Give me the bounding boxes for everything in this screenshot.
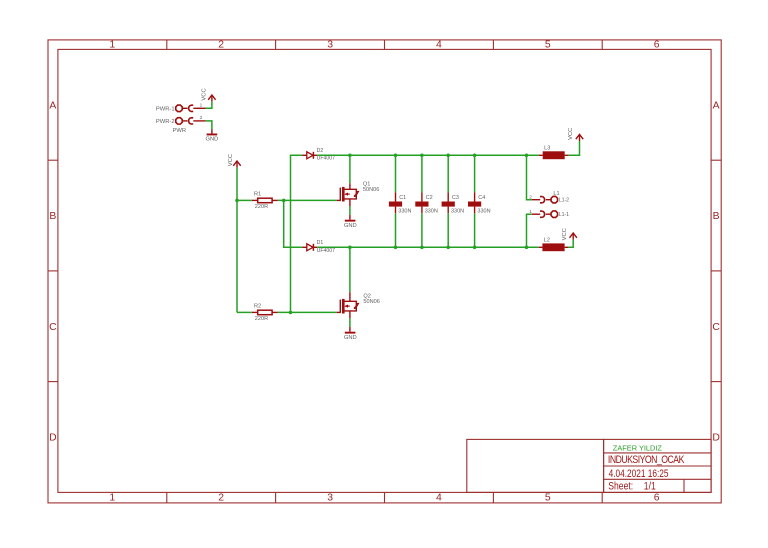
svg-text:GND: GND — [205, 136, 218, 142]
capacitor C1 — [389, 202, 402, 207]
svg-text:2: 2 — [218, 40, 224, 51]
resistor R2 — [258, 310, 272, 315]
svg-text:ZAFER YILDIZ: ZAFER YILDIZ — [613, 443, 663, 452]
connector PWR pin 2 pad — [176, 118, 193, 124]
ground stub Q1 — [349, 215, 351, 220]
svg-text:GND: GND — [344, 335, 357, 341]
C1 top pin — [395, 192, 397, 201]
L2 left pin — [539, 246, 543, 248]
svg-text:4: 4 — [436, 492, 442, 503]
resistor R1 — [258, 198, 272, 203]
R2 left pin — [252, 311, 258, 313]
wire L1 pin 1 down to bottom bus — [527, 214, 532, 247]
R1 right pin — [272, 199, 278, 201]
wire Q1 source to ground — [349, 206, 351, 215]
wire rail to R1 — [237, 199, 252, 201]
junction bottom bus x=474.6 — [473, 246, 477, 250]
R1 left pin — [252, 199, 258, 201]
svg-text:R2: R2 — [254, 304, 261, 310]
junction bottom bus x=421.9 — [420, 246, 424, 250]
svg-text:UF4007: UF4007 — [317, 156, 336, 162]
svg-text:6: 6 — [654, 40, 660, 51]
junction R2 out / D2 branch — [289, 311, 293, 315]
wire R1 to Q1 gate — [278, 199, 337, 201]
svg-text:330N: 330N — [398, 208, 411, 214]
junction bottom bus x=349.9 — [348, 246, 352, 250]
svg-text:D: D — [712, 433, 720, 444]
svg-text:50N06: 50N06 — [363, 187, 379, 193]
connector PWR pin 1 pad — [176, 105, 193, 111]
transistor Q2 — [340, 299, 358, 314]
svg-text:B: B — [713, 211, 720, 222]
junction bottom bus x=395.5 — [394, 246, 398, 250]
C1 bottom pin — [395, 207, 397, 214]
svg-text:Sheet:: Sheet: — [608, 481, 633, 493]
supply VCC (gate rail) — [233, 161, 240, 168]
svg-text:VCC: VCC — [228, 154, 234, 166]
C2 top pin — [421, 192, 423, 201]
svg-text:6: 6 — [654, 492, 660, 503]
wire L2 to VCC — [568, 240, 573, 248]
wire top bus down to L1 pin 2 — [527, 155, 532, 199]
svg-text:3: 3 — [327, 40, 333, 51]
svg-text:5: 5 — [545, 40, 551, 51]
junction top bus x=526.5 — [525, 154, 529, 158]
svg-text:R1: R1 — [254, 192, 261, 198]
L1 pin 1 wire — [532, 213, 540, 215]
svg-text:L1-2: L1-2 — [559, 198, 569, 204]
svg-text:PWR: PWR — [173, 128, 187, 134]
L3 left pin — [539, 154, 543, 156]
inductor L2 — [542, 243, 564, 251]
wire stub to ground bar — [211, 129, 213, 133]
svg-text:1: 1 — [200, 102, 203, 108]
ground GND (Q1) — [345, 220, 356, 222]
wire top bus to Q1 drain — [349, 155, 351, 183]
pin wire PWR-1 — [193, 107, 205, 109]
capacitor C2 — [415, 202, 428, 207]
svg-text:1: 1 — [109, 40, 115, 51]
supply VCC (L2) — [570, 233, 577, 240]
svg-text:A: A — [49, 101, 56, 112]
junction top bus x=421.9 — [420, 154, 424, 158]
R2 right pin — [272, 311, 278, 313]
junction top bus x=349.9 — [348, 154, 352, 158]
wire gate2 node up to D2 anode — [291, 155, 303, 312]
svg-text:C1: C1 — [399, 195, 406, 201]
transistor Q1 — [340, 187, 358, 202]
L2 right pin — [565, 246, 569, 248]
svg-text:D1: D1 — [317, 240, 324, 246]
wire top bus to C3 — [447, 155, 449, 192]
Q2 source pin — [349, 311, 351, 319]
svg-text:C3: C3 — [452, 195, 459, 201]
L1 pin 2 wire — [532, 199, 540, 201]
C2 bottom pin — [421, 207, 423, 214]
wire C3 to bottom bus — [447, 213, 449, 247]
wire top bus (D2 cathode to L3) — [317, 154, 539, 156]
diode D2 — [302, 152, 317, 159]
ground stub Q2 — [349, 327, 351, 332]
C4 top pin — [474, 192, 476, 201]
inductor L3 — [543, 151, 565, 159]
C3 top pin — [447, 192, 449, 201]
junction top bus x=448.2 — [446, 154, 450, 158]
wire top bus to C2 — [421, 155, 423, 192]
svg-text:D2: D2 — [317, 148, 324, 154]
svg-text:220R: 220R — [255, 204, 268, 210]
wire bottom bus (D1 cathode to L2) — [317, 246, 539, 248]
junction bottom bus x=448.2 — [446, 246, 450, 250]
wire PWR-1 to VCC — [206, 102, 212, 109]
L3 right pin — [565, 154, 569, 156]
svg-text:C2: C2 — [426, 195, 433, 201]
Q2 drain pin — [349, 292, 351, 301]
connector L1 pin 2 pad — [540, 196, 558, 202]
svg-text:C4: C4 — [478, 195, 485, 201]
wire Q2 source to ground — [349, 318, 351, 327]
wire C4 to bottom bus — [474, 213, 476, 247]
Q2 gate pin — [337, 311, 341, 313]
svg-text:C: C — [712, 322, 720, 333]
junction top bus x=474.6 — [473, 154, 477, 158]
pin wire PWR-2 — [193, 120, 205, 122]
svg-text:330N: 330N — [451, 208, 464, 214]
svg-text:3: 3 — [327, 492, 333, 503]
svg-text:L1: L1 — [553, 191, 559, 197]
junction top bus x=395.5 — [394, 154, 398, 158]
wire R2 to Q2 gate — [278, 311, 337, 313]
svg-text:PWR-1: PWR-1 — [156, 107, 175, 113]
svg-text:L3: L3 — [544, 145, 550, 151]
svg-text:VCC: VCC — [201, 88, 207, 100]
svg-text:1/1: 1/1 — [644, 481, 656, 493]
svg-text:C: C — [49, 322, 57, 333]
svg-text:L1-1: L1-1 — [559, 212, 569, 218]
wire rail corner to R2 — [237, 311, 252, 313]
svg-text:PWR-2: PWR-2 — [156, 119, 175, 125]
junction rail/R1 — [235, 199, 239, 203]
svg-text:1: 1 — [109, 492, 115, 503]
connector L1 pin 1 pad — [540, 211, 558, 217]
svg-text:220R: 220R — [255, 316, 268, 322]
svg-text:330N: 330N — [477, 208, 490, 214]
C3 bottom pin — [447, 207, 449, 214]
Q1 drain pin — [349, 183, 351, 189]
svg-text:4: 4 — [436, 40, 442, 51]
svg-text:330N: 330N — [425, 208, 438, 214]
ground GND (Q2) — [345, 332, 356, 334]
C4 bottom pin — [474, 207, 476, 214]
wire top bus to C4 — [474, 155, 476, 192]
svg-text:A: A — [713, 101, 720, 112]
supply VCC (PWR) — [208, 95, 215, 102]
junction bottom bus x=526.5 — [525, 246, 529, 250]
Q1 source pin — [349, 199, 351, 207]
svg-text:5: 5 — [545, 492, 551, 503]
Q1 gate pin — [337, 199, 341, 201]
capacitor C3 — [442, 202, 455, 207]
wire C1 to bottom bus — [395, 213, 397, 247]
wire VCC rail vertical — [236, 168, 238, 313]
svg-text:2: 2 — [200, 115, 203, 121]
wire C2 to bottom bus — [421, 213, 423, 247]
wire top bus to C1 — [395, 155, 397, 192]
supply VCC (L3) — [576, 134, 583, 141]
svg-text:B: B — [49, 211, 56, 222]
svg-text:2: 2 — [529, 195, 532, 201]
wire gate1 node down to D1 anode — [284, 200, 303, 247]
svg-text:INDUKSIYON_OCAK: INDUKSIYON_OCAK — [608, 454, 685, 466]
diode D1 — [302, 244, 317, 251]
svg-text:L2: L2 — [544, 237, 550, 243]
svg-text:2: 2 — [218, 492, 224, 503]
svg-text:GND: GND — [344, 223, 357, 229]
wire PWR-2 to GND — [206, 121, 212, 129]
junction R1 out / D1 branch — [282, 199, 286, 203]
ground GND (PWR) — [207, 134, 218, 136]
svg-text:VCC: VCC — [568, 128, 574, 140]
svg-text:D: D — [49, 433, 57, 444]
svg-text:VCC: VCC — [562, 228, 568, 240]
wire L3 to VCC — [569, 141, 580, 155]
svg-text:UF4007: UF4007 — [317, 248, 336, 254]
capacitor C4 — [468, 202, 481, 207]
wire bottom bus to Q2 drain — [349, 247, 351, 292]
svg-text:50N06: 50N06 — [363, 299, 379, 305]
svg-text:4.04.2021 16:25: 4.04.2021 16:25 — [609, 468, 669, 480]
